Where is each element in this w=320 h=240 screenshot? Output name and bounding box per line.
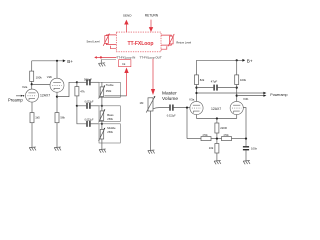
svg-text:100n: 100n bbox=[251, 147, 258, 151]
svg-text:TT-FXLoop OUT: TT-FXLoop OUT bbox=[140, 56, 162, 60]
svg-text:250k: 250k bbox=[107, 130, 113, 134]
wire bass bottom to middle line bbox=[101, 121, 103, 124]
svg-text:1M: 1M bbox=[140, 101, 145, 105]
svg-text:B+: B+ bbox=[67, 59, 73, 64]
cable shield + ground (gray/black) bbox=[101, 59, 116, 61]
wire MV wiper to cap bbox=[153, 108, 169, 109]
potentiometer Middle bbox=[99, 124, 106, 141]
svg-text:47k: 47k bbox=[80, 89, 85, 93]
svg-text:56k: 56k bbox=[60, 116, 65, 120]
svg-text:Volume: Volume bbox=[162, 96, 178, 102]
svg-text:12AX7: 12AX7 bbox=[40, 93, 50, 97]
wire V2a plate to V2b grid bbox=[32, 84, 51, 86]
resistor 220R bbox=[216, 119, 218, 124]
svg-text:82k: 82k bbox=[200, 78, 205, 82]
B+ terminal left bbox=[63, 59, 66, 62]
triode V3a bbox=[190, 101, 203, 118]
resistor V2a cathode 1k5 bbox=[30, 113, 34, 123]
svg-text:V3a: V3a bbox=[189, 97, 195, 101]
potentiometer Master Volume bbox=[146, 96, 155, 113]
svg-text:Preamp: Preamp bbox=[8, 98, 23, 103]
potentiometer Treble bbox=[99, 82, 106, 98]
resistor 100k (V3b plate) bbox=[236, 60, 238, 75]
svg-text:470k: 470k bbox=[202, 134, 208, 137]
svg-text:Poweramp: Poweramp bbox=[270, 93, 287, 97]
ground 100n bbox=[243, 161, 250, 165]
FX loop dashed box TT-FXLoop bbox=[116, 32, 161, 52]
wire treble wiper to FX send bbox=[105, 95, 127, 97]
ground middle pot bbox=[99, 149, 106, 153]
ground tail bbox=[214, 161, 221, 165]
input arrow Preamp bbox=[16, 95, 21, 97]
wire to 500pF bbox=[77, 81, 86, 83]
wire cable shield bbox=[101, 59, 116, 61]
wire B+ rail left bbox=[32, 60, 64, 62]
capacitor 47pF bbox=[197, 87, 214, 89]
resistor 10k tail bbox=[216, 139, 218, 144]
svg-text:12AX7: 12AX7 bbox=[211, 107, 221, 111]
wire middle bottom to ground bbox=[101, 139, 103, 149]
FX loop IN cable (red core) bbox=[96, 56, 116, 58]
svg-text:0.022µF: 0.022µF bbox=[85, 118, 94, 121]
svg-text:RETURN: RETURN bbox=[145, 13, 159, 17]
svg-text:TT-FXLoop: TT-FXLoop bbox=[128, 41, 154, 47]
nodes 47pF line bbox=[195, 87, 197, 89]
wire MV bottom to ground bbox=[150, 111, 152, 150]
svg-text:V2b: V2b bbox=[47, 75, 53, 79]
svg-text:220R: 220R bbox=[220, 126, 227, 130]
svg-text:SEND: SEND bbox=[123, 13, 132, 17]
capacitor 0.022uF bass bbox=[77, 105, 86, 107]
jack box Int bbox=[119, 60, 131, 67]
wire cathodes tie bbox=[197, 118, 237, 120]
bass box bbox=[99, 106, 120, 122]
wire 500pF to treble box bbox=[91, 81, 99, 83]
wire V2b cathode to tone stack riser bbox=[57, 82, 77, 96]
ground master volume bbox=[148, 150, 155, 154]
node V2b cathode bbox=[56, 96, 58, 98]
svg-text:Master: Master bbox=[162, 91, 177, 97]
svg-text:250k: 250k bbox=[107, 117, 113, 121]
capacitor 500pF bbox=[87, 79, 90, 85]
svg-text:Return Level: Return Level bbox=[176, 40, 191, 44]
capacitor 100n (V3b grid) bbox=[245, 139, 247, 146]
middle box bbox=[99, 124, 120, 143]
wire treble bottom to bass line bbox=[101, 97, 103, 106]
resistor V2b cathode 56k bbox=[55, 113, 59, 123]
wire V3b output to poweramp bbox=[237, 95, 264, 97]
triode V2b bbox=[56, 61, 58, 78]
svg-text:500pF: 500pF bbox=[84, 77, 92, 81]
node V2a plate / V2b grid bbox=[31, 83, 33, 85]
node 47k bottom bbox=[76, 105, 78, 107]
node rail-V2b plate bbox=[56, 60, 58, 62]
svg-text:10k: 10k bbox=[209, 146, 214, 150]
resistor 47k slope bbox=[76, 82, 78, 86]
resistor bias right 470k bbox=[222, 137, 232, 141]
wire V3a output to poweramp bbox=[197, 92, 264, 94]
SEND arrow (up) bbox=[125, 24, 127, 32]
node treble bottom/bass top bbox=[101, 105, 103, 107]
svg-text:TT-FXLoop IN: TT-FXLoop IN bbox=[116, 56, 135, 60]
capacitor 0.022uF middle bbox=[77, 106, 86, 124]
potentiometer Bass bbox=[99, 106, 106, 123]
svg-text:Treble: Treble bbox=[106, 83, 114, 87]
wire V3b grid right side bbox=[243, 108, 246, 139]
B+ terminal right bbox=[242, 59, 245, 62]
ground V2a cathode bbox=[29, 147, 36, 151]
ground V2b cathode bbox=[54, 147, 61, 151]
node middle top bbox=[101, 123, 103, 125]
svg-text:V3b: V3b bbox=[243, 97, 249, 101]
wire bias line bbox=[186, 108, 188, 139]
potentiometer Send Level bbox=[103, 33, 116, 48]
node V3a grid bbox=[186, 107, 188, 109]
RETURN arrow (down) bbox=[150, 20, 152, 28]
triode V2a bbox=[26, 89, 39, 113]
wire shield to ground bbox=[100, 60, 102, 63]
potentiometer Return Level bbox=[161, 34, 175, 49]
resistor R 100k (V2a plate) bbox=[31, 61, 33, 71]
svg-text:Int: Int bbox=[122, 62, 126, 66]
red wire treble wiper to FXLoop IN bbox=[126, 73, 128, 96]
ground cable shield bbox=[99, 63, 106, 67]
svg-text:0.022µF: 0.022µF bbox=[85, 100, 94, 103]
capacitor 0.022uF coupling bbox=[170, 105, 173, 111]
treble box bbox=[99, 82, 120, 97]
wire B+ rail right bbox=[197, 59, 244, 61]
red wire FXLoop OUT to master volume bbox=[152, 59, 154, 89]
node V3a output bbox=[195, 92, 197, 94]
svg-text:100k: 100k bbox=[240, 78, 247, 82]
resistor 82k (V3a plate) bbox=[196, 60, 198, 75]
svg-text:47pF: 47pF bbox=[211, 80, 218, 84]
svg-text:B+: B+ bbox=[247, 58, 253, 63]
svg-text:Send Level: Send Level bbox=[87, 40, 100, 44]
svg-text:1k5: 1k5 bbox=[35, 116, 40, 120]
svg-text:0.022µF: 0.022µF bbox=[167, 115, 176, 118]
svg-text:100k: 100k bbox=[36, 75, 43, 79]
triode V3b bbox=[230, 101, 243, 118]
svg-text:Middle: Middle bbox=[107, 126, 116, 130]
svg-text:250k: 250k bbox=[106, 89, 112, 93]
node 47k top bbox=[76, 81, 78, 83]
svg-text:470k: 470k bbox=[223, 134, 229, 137]
svg-text:Bass: Bass bbox=[107, 113, 114, 117]
node V3b output bbox=[236, 95, 238, 97]
resistor bias left 470k bbox=[201, 137, 211, 141]
svg-text:V2a: V2a bbox=[22, 85, 28, 89]
